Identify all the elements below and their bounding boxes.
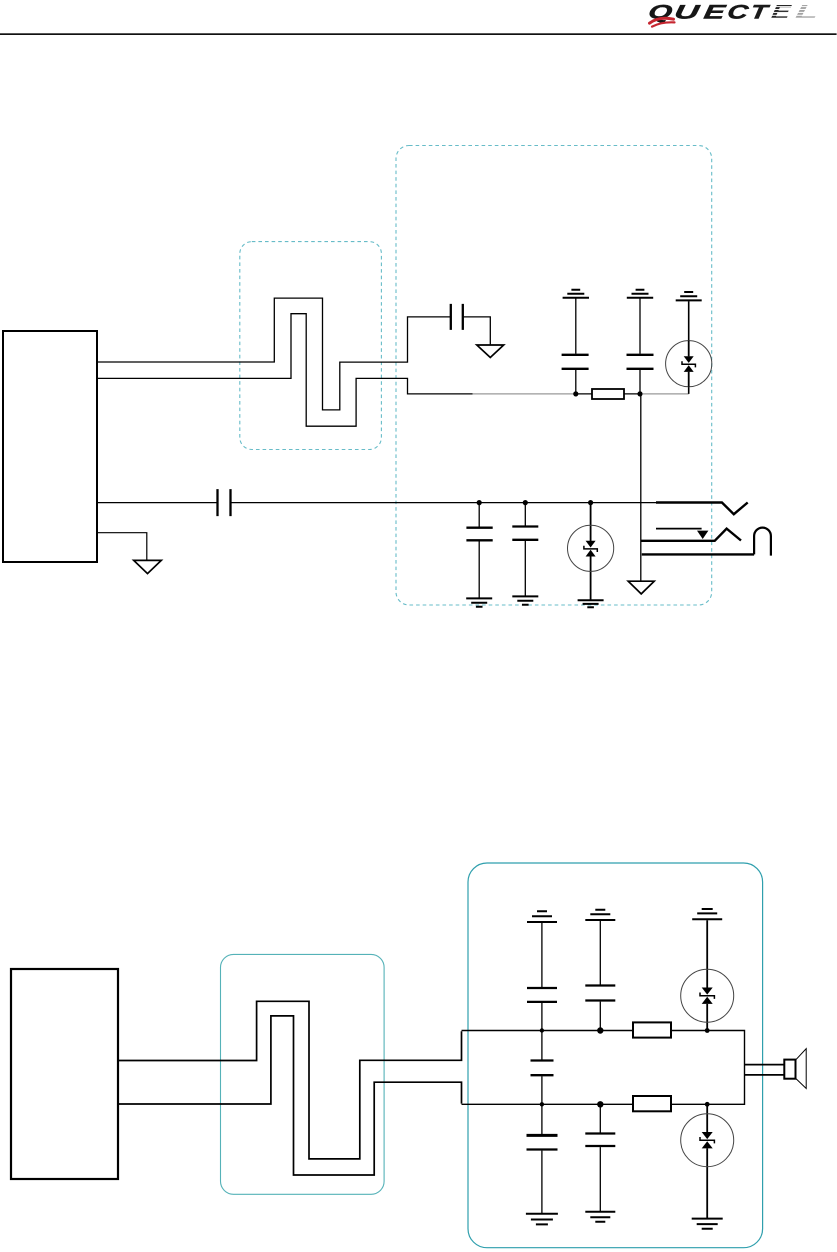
dashed box: routing (small) [240,242,382,450]
wire [541,923,543,987]
ground G2 (inverted earth) [627,290,653,298]
junction dot [477,500,482,505]
junction dot [523,500,528,505]
junction dot [705,1028,710,1033]
wire: trace B (meander to bus) [97,314,473,427]
junction dot [705,1102,710,1107]
wire: trace A (meander to cap) [97,298,451,410]
Quectel logo wordmark [647,1,820,24]
junction dot [540,1028,544,1032]
junction dot [540,1102,544,1106]
svg-text:C: C [726,2,750,24]
wire (grey bus to TVS) [642,393,688,395]
jack sleeve [642,553,754,555]
jack detect arm wire [656,528,702,530]
junction dot [588,500,593,505]
svg-text:E: E [702,1,728,23]
capacitor C1 (series to gnd) [451,304,463,330]
ground G1 (inverted earth) [563,290,589,298]
ground B2 (earth) [585,1212,615,1222]
wire [231,502,657,504]
headphone jack: tip contact [656,503,748,515]
junction dot [597,1027,603,1033]
jack detect arrowhead [697,531,708,539]
ground G4 (earth) [466,598,492,606]
dashed box: audio interface (big) [396,146,712,606]
jack ring contact [641,529,741,541]
TVS diode D4 [681,1104,734,1218]
solid box: speaker interface (big) [468,863,763,1248]
ground G5 (earth) [512,596,538,604]
ground A2 (inverted earth) [585,910,615,920]
logo red swoosh [650,18,675,26]
ground G6 (earth) [578,600,604,607]
capacitor C3 (to inverted gnd) [639,298,641,394]
wire: trace B2 meander [118,1016,462,1175]
module M1 [3,331,97,562]
wire [599,1002,601,1029]
jack sleeve hook [754,528,771,556]
module M2 [11,969,118,1179]
speaker wires [745,1065,785,1075]
vertical wire bus to jack ring [640,396,642,581]
capacitor C10 [585,986,615,1001]
capacitor C4 (series) [218,489,231,516]
TVS diode D2 [568,503,614,600]
ground triangle (jack) [628,581,654,594]
ground triangle (module) [134,560,162,573]
module ground lead [97,533,147,560]
lower bus wire [97,502,217,504]
wire [463,317,491,345]
wire [599,1106,601,1133]
capacitor C2 (to inverted gnd) [575,298,577,394]
svg-text:L: L [794,2,820,24]
svg-text:E: E [770,2,793,24]
ground B3 (earth) [692,1219,723,1229]
ground A1 (inverted earth) [527,911,557,922]
speaker box [784,1060,795,1079]
junction dot [573,391,578,396]
wire [541,1151,543,1213]
capacitor C6 [524,503,526,596]
wire [599,921,601,985]
wire [541,1003,543,1060]
wire [599,1147,601,1211]
rails [462,1031,745,1105]
junction dot [637,391,642,396]
resistor R1 [592,389,624,399]
resistor R2 [633,1022,671,1037]
TVS diode D3 [681,920,734,1030]
junction dot [597,1101,603,1107]
capacitor C9 [527,1134,558,1137]
ground A3 (inverted earth) [692,909,722,919]
capacitor C7 [527,988,557,1002]
wire [578,393,640,395]
speaker horn [796,1049,806,1089]
ground triangle (top) [477,345,504,358]
capacitor C11 [585,1134,615,1147]
wire [541,1076,543,1134]
wire: trace A2 meander [118,1001,462,1159]
TVS diode D1 [666,341,712,387]
wire [688,301,690,394]
ground B1 (earth) [526,1214,558,1225]
wire (grey bus segment) [473,393,576,395]
solid box: routing (small) [221,954,385,1194]
svg-text:T: T [749,2,772,24]
capacitor C8 (differential) [531,1061,554,1076]
svg-text:U: U [673,1,702,23]
ground G3 (inverted earth) [676,292,702,300]
capacitor C5 [478,503,480,598]
header rule [0,33,837,35]
resistor R3 [633,1096,671,1111]
